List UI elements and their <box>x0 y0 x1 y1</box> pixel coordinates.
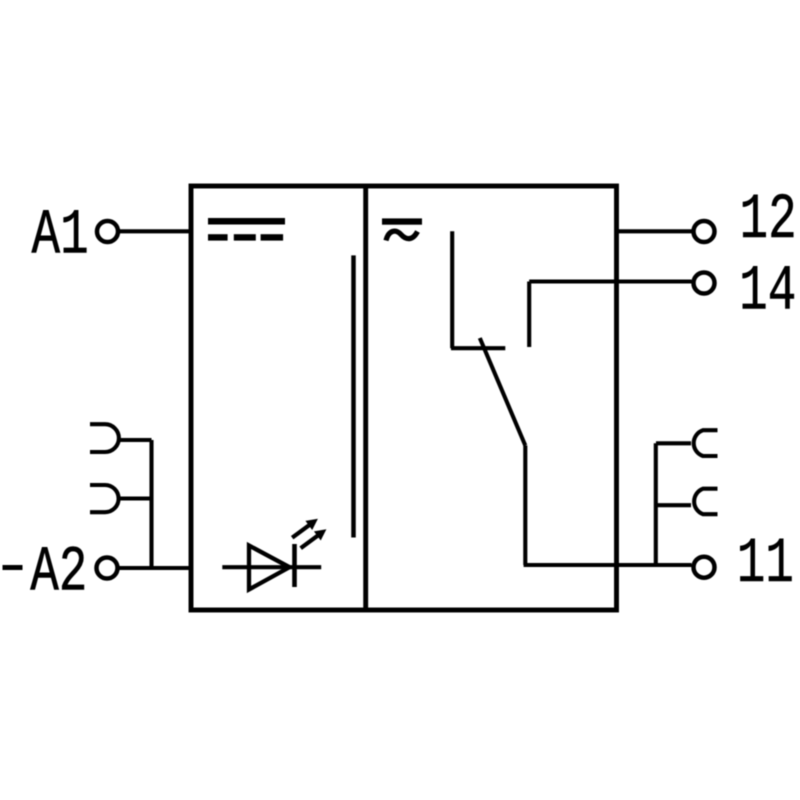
svg-text:A1: A1 <box>32 199 89 272</box>
svg-text:12: 12 <box>740 184 797 257</box>
svg-text:A2: A2 <box>30 536 87 609</box>
svg-text:11: 11 <box>737 528 794 601</box>
svg-text:14: 14 <box>739 255 796 328</box>
